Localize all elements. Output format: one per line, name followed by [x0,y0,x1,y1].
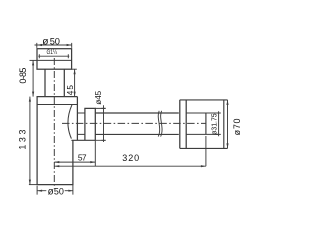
dim Ø50 top: dimension line [35,44,72,46]
dim 133: dimension line [29,97,31,185]
svg-text:45: 45 [66,85,75,96]
dim ø50 bottom: extension lines [37,185,73,195]
dim G1 1/4: dimension line with end ticks [38,54,69,58]
dim 57: arrows [54,161,95,163]
dim 133: arrows [29,97,31,185]
centerline horizontal (outlet axis) [62,122,206,124]
inlet pipe [45,69,64,96]
body top band line [37,104,77,106]
dim 133: extension line at body bottom [29,184,37,186]
wall flange box bottom edge [180,147,228,149]
dim 320: extension from tube end [205,136,207,166]
svg-text:ø45: ø45 [93,90,103,104]
svg-text:ø: ø [48,187,54,198]
dim 45: extension line [72,68,77,70]
svg-text:ø: ø [42,37,48,48]
svg-text:133: 133 [17,130,27,150]
dim ø45: tick arrows [101,108,105,140]
dim ø31.75: dimension line with tick ends [216,111,220,136]
dim 0-85: dimension line [32,60,34,96]
svg-text:320: 320 [122,153,139,163]
dim ø45: dimension line [103,105,105,142]
svg-text:ø70: ø70 [232,118,242,135]
dim ø45: extension lines [95,108,105,140]
dim 57: dimension line [54,161,95,163]
top flange internal line [37,59,72,61]
dim 0-85: arrows [32,60,34,96]
pipe break symbol [158,111,159,137]
tube end [205,113,207,134]
dim 0-85: extension line [30,59,38,61]
svg-text:ø31.75: ø31.75 [210,113,219,135]
svg-text:G1¼: G1¼ [47,49,58,56]
dim 45: arrows [74,69,76,96]
outlet passage bottom / nut bottom line [71,139,95,141]
dim 320: dimension line [54,165,206,167]
outlet compression nut [85,108,95,140]
dim Ø50 top: extension lines [37,43,72,48]
outlet tube [95,113,179,134]
dim 57: extension via nut face [94,140,96,166]
centerline vertical (inlet axis) [53,58,55,189]
tube through flange [186,113,218,134]
dim ø50 bottom: arrows [37,190,73,192]
wall flange box top edge [180,99,228,101]
dim ø70: dimension line [227,100,229,148]
svg-text:50: 50 [50,36,60,46]
svg-text:50: 50 [54,186,64,196]
svg-text:0-85: 0-85 [18,68,28,84]
dim 45: dimension line [74,69,76,96]
wall flange plate [180,100,186,148]
dim ø50 bottom: dimension line [37,190,73,192]
dim ø70: arrows [226,100,228,148]
internal elbow arc [68,105,72,139]
dim 320: arrows [54,165,206,167]
dim Ø50 top: arrows [37,44,72,46]
wall flange box right edge [223,100,225,148]
svg-text:57: 57 [78,153,87,163]
top flange nut (G1 1/4 coupling) [37,49,72,69]
outlet tube stub (body to nut) [77,113,85,134]
body (trap housing, stepped right side) [37,97,77,185]
